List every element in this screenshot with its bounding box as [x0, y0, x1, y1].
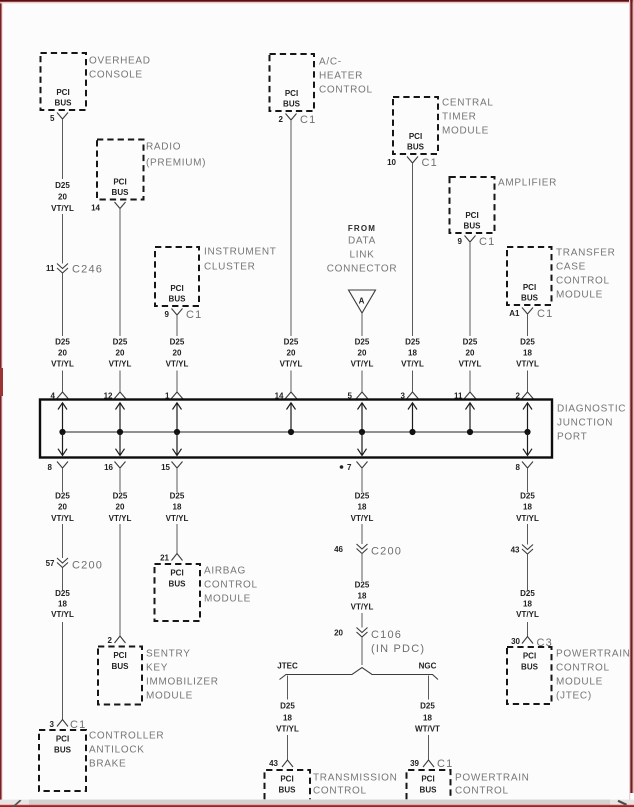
svg-text:46: 46	[334, 545, 343, 554]
bottom gray status strip	[0, 800, 634, 805]
pin 2 connector above sentry key immobilizer module	[108, 636, 126, 645]
svg-text:VT/YL: VT/YL	[351, 603, 374, 612]
split brace from C106 to JTEC and NGC branches	[280, 668, 439, 680]
svg-text:18: 18	[58, 600, 67, 609]
wire col2 to sentry key immobilizer module	[119, 524, 121, 636]
wire col8 label to port pin	[527, 371, 529, 393]
svg-text:MODULE: MODULE	[556, 677, 603, 688]
svg-text:20: 20	[58, 349, 67, 358]
label: SENTRY KEY IMMOBILIZER MODULE	[146, 649, 219, 702]
svg-text:VT/YL: VT/YL	[51, 360, 74, 369]
label: TRANSFER CASE CONTROL MODULE	[556, 248, 616, 301]
svg-text:VT/YL: VT/YL	[109, 360, 132, 369]
svg-text:CONNECTOR: CONNECTOR	[327, 264, 398, 275]
off-page triangle connector A (data link connector)	[349, 290, 376, 313]
svg-text:D25: D25	[520, 338, 535, 347]
svg-text:CENTRAL: CENTRAL	[442, 98, 494, 109]
port top pin 1 chevron col3	[165, 392, 183, 401]
wire col5 below port	[361, 468, 363, 492]
svg-text:C246: C246	[72, 264, 103, 276]
svg-text:18: 18	[173, 503, 182, 512]
page border top maroon	[0, 0, 634, 1]
wire label D25 18 VT/YL above port col6	[401, 338, 424, 369]
wire col3 instrument cluster to port	[176, 315, 178, 336]
label: RADIO (PREMIUM)	[146, 142, 206, 169]
wire col1 to controller antilock brake	[62, 622, 64, 720]
wire col2 label to port pin	[119, 371, 121, 393]
svg-text:KEY: KEY	[146, 663, 168, 674]
module box: POWERTRAIN CONTROL (PCI BUS, cut at bottom)	[407, 770, 451, 799]
svg-text:PCI: PCI	[170, 284, 183, 293]
port internal up-arrow col2	[116, 403, 125, 432]
svg-text:C106: C106	[371, 629, 402, 641]
cursor mark bottom right	[618, 801, 627, 805]
port top pin 14 chevron col4	[275, 392, 297, 401]
svg-text:CASE: CASE	[556, 262, 586, 273]
svg-text:20: 20	[173, 349, 182, 358]
svg-text:BUS: BUS	[521, 294, 539, 303]
wire col5 to C200	[361, 524, 363, 544]
svg-text:PCI: PCI	[421, 775, 434, 784]
svg-text:JTEC: JTEC	[277, 662, 298, 671]
wire col1 to C200	[62, 524, 64, 558]
svg-text:TRANSFER: TRANSFER	[556, 248, 616, 259]
port top pin 11 chevron col7	[454, 392, 476, 401]
port internal up-arrow col7	[466, 403, 475, 432]
svg-text:C1: C1	[479, 236, 495, 248]
svg-text:(JTEC): (JTEC)	[556, 691, 592, 702]
svg-text:MODULE: MODULE	[146, 691, 193, 702]
label: AMPLIFIER	[498, 178, 557, 189]
wire label D25 20 VT/YL above port col2	[109, 338, 132, 369]
svg-text:BUS: BUS	[464, 222, 482, 231]
wire label D25 20 VT/YL above port col7	[459, 338, 482, 369]
wire col3 to airbag control module	[176, 524, 178, 553]
svg-text:POWERTRAIN: POWERTRAIN	[556, 649, 631, 660]
wire label below port col3	[166, 492, 189, 524]
pin 30 connector C3 above powertrain control module (JTEC)	[511, 637, 553, 650]
svg-text:D25: D25	[463, 338, 478, 347]
module box: TRANSMISSION CONTROL (PCI BUS, cut at bottom)	[265, 770, 311, 799]
svg-text:8: 8	[516, 463, 521, 472]
pin 9 connector C1 below amplifier	[458, 236, 496, 249]
port top pin 4 chevron col1	[51, 392, 69, 401]
svg-text:BUS: BUS	[112, 188, 130, 197]
svg-text:10: 10	[387, 158, 396, 167]
port bus junction dot col3	[174, 429, 180, 435]
port internal down-arrow col3	[173, 432, 182, 455]
wire col1 label to port pin	[62, 371, 64, 393]
pin 39 connector C1 above powertrain control	[410, 758, 453, 770]
svg-text:A/C-: A/C-	[319, 57, 342, 68]
module box: AMPLIFIER (PCI BUS)	[450, 177, 495, 233]
wire col8 TCCM to port	[527, 314, 529, 336]
svg-text:20: 20	[334, 629, 343, 638]
svg-text:CONTROL: CONTROL	[556, 276, 610, 287]
svg-text:PCI: PCI	[409, 132, 422, 141]
pin 43 connector above transmission control	[269, 759, 293, 768]
svg-text:VT/YL: VT/YL	[166, 514, 189, 523]
svg-text:VT/YL: VT/YL	[280, 360, 303, 369]
svg-text:21: 21	[160, 554, 169, 563]
label: CENTRAL TIMER MODULE	[442, 98, 494, 137]
svg-text:18: 18	[408, 349, 417, 358]
wire col4 A/C to port	[290, 120, 292, 336]
port internal up-arrow col1	[58, 403, 67, 432]
svg-text:D25: D25	[520, 589, 535, 598]
port internal down-arrow col5	[358, 432, 367, 455]
svg-text:LINK: LINK	[349, 250, 374, 261]
svg-text:PCI: PCI	[113, 651, 126, 660]
svg-text:IMMOBILIZER: IMMOBILIZER	[146, 677, 219, 688]
svg-text:D25: D25	[55, 181, 70, 190]
wire label D25 18 WT/VT NGC branch	[415, 702, 440, 734]
wire JTEC branch to transmission control	[287, 735, 289, 760]
svg-text:VT/YL: VT/YL	[51, 204, 74, 213]
svg-text:VT/YL: VT/YL	[276, 725, 299, 734]
svg-text:AIRBAG: AIRBAG	[204, 566, 246, 577]
svg-text:BUS: BUS	[169, 295, 187, 304]
pin A1 connector C1 below transfer case control module	[509, 308, 553, 321]
port internal bus line	[63, 431, 528, 433]
svg-text:D25: D25	[55, 338, 70, 347]
svg-text:MODULE: MODULE	[204, 594, 251, 605]
wire col1 below port	[62, 468, 64, 492]
wire col8 to powertrain control module JTEC	[527, 622, 529, 637]
port bottom pin 15 fork col3	[161, 462, 182, 473]
wire label D25 18 VT/YL above port col8	[516, 338, 539, 369]
svg-text:D25: D25	[355, 492, 370, 501]
wire label D25 20 VT/YL above port col3	[166, 338, 189, 369]
svg-text:C200: C200	[72, 560, 103, 572]
svg-text:C1: C1	[437, 758, 453, 770]
wire label D25 18 VT/YL JTEC branch	[276, 702, 299, 734]
svg-text:C1: C1	[537, 308, 553, 320]
svg-text:D25: D25	[405, 338, 420, 347]
label: CONTROLLER ANTILOCK BRAKE	[89, 731, 164, 770]
wire col2 below port	[119, 468, 121, 492]
port top pin 3 chevron col6	[401, 392, 419, 401]
svg-text:VT/YL: VT/YL	[51, 610, 74, 619]
port bus junction dot col1	[59, 429, 65, 435]
in-line connector pin 43 col8	[511, 545, 533, 555]
svg-text:NGC: NGC	[419, 662, 437, 671]
module box: POWERTRAIN CONTROL MODULE JTEC (PCI BUS)	[507, 647, 552, 704]
module box: CENTRAL TIMER MODULE (PCI BUS)	[393, 97, 438, 154]
svg-text:A: A	[359, 297, 365, 306]
wire col2 radio to port	[119, 209, 121, 337]
svg-text:VT/YL: VT/YL	[51, 514, 74, 523]
svg-text:30: 30	[511, 637, 520, 646]
wire col8 below port	[527, 468, 529, 492]
svg-text:VT/YL: VT/YL	[401, 360, 424, 369]
port top pin 12 chevron col2	[104, 392, 126, 401]
svg-text:7: 7	[347, 463, 352, 472]
page border left maroon	[0, 0, 2, 807]
svg-text:VT/YL: VT/YL	[516, 514, 539, 523]
in-line connector C246 pin 11	[46, 264, 103, 276]
wire col1 below C200	[62, 568, 64, 590]
svg-text:3: 3	[50, 720, 55, 729]
wire label D25 20 VT/YL above port col5	[351, 338, 374, 369]
wire col8 to connector 43	[527, 524, 529, 545]
svg-text:D25: D25	[420, 702, 435, 711]
diagnostic junction port box	[40, 400, 552, 458]
svg-text:11: 11	[46, 264, 55, 273]
port internal down-arrow col1	[58, 432, 67, 455]
svg-text:18: 18	[523, 349, 532, 358]
svg-text:CONTROL: CONTROL	[556, 663, 610, 674]
port bus junction dot col5	[359, 429, 365, 435]
svg-text:18: 18	[523, 600, 532, 609]
port internal up-arrow col4	[287, 403, 296, 432]
port internal down-arrow col8	[523, 432, 532, 455]
svg-text:PCI: PCI	[113, 178, 126, 187]
svg-text:MODULE: MODULE	[556, 290, 603, 301]
wire col3 label to port pin	[176, 371, 178, 393]
svg-text:20: 20	[287, 349, 296, 358]
port internal up-arrow col3	[173, 403, 182, 432]
svg-text:BUS: BUS	[169, 580, 187, 589]
svg-text:CONTROL: CONTROL	[319, 85, 373, 96]
in-line connector C200 pin 46	[334, 544, 402, 558]
svg-text:5: 5	[50, 114, 55, 123]
svg-text:BUS: BUS	[55, 99, 73, 108]
svg-text:57: 57	[46, 559, 55, 568]
svg-text:CONTROL: CONTROL	[204, 580, 258, 591]
wire label D25 20 VT/YL above port col1	[51, 338, 74, 369]
svg-text:PCI: PCI	[56, 88, 69, 97]
wire col1 below C246	[62, 274, 64, 337]
svg-text:20: 20	[466, 349, 475, 358]
wire label below port col1	[51, 492, 74, 524]
wire col3 below port	[176, 468, 178, 492]
wire label below port col2	[109, 492, 132, 524]
svg-text:16: 16	[104, 463, 113, 472]
port bus junction dot col6	[409, 429, 415, 435]
port internal up-arrow col5	[358, 403, 367, 432]
svg-text:PORT: PORT	[557, 432, 587, 443]
wire col5 label to port pin	[361, 371, 363, 393]
page border right maroon	[629, 0, 630, 807]
module box: INSTRUMENT CLUSTER (PCI BUS)	[155, 247, 199, 306]
svg-text:POWERTRAIN: POWERTRAIN	[455, 773, 530, 784]
left border scroll mark	[0, 368, 3, 396]
svg-text:2: 2	[108, 636, 113, 645]
svg-text:VT/YL: VT/YL	[351, 360, 374, 369]
module box: SENTRY KEY IMMOBILIZER MODULE (PCI BUS)	[98, 647, 142, 705]
svg-text:VT/YL: VT/YL	[516, 360, 539, 369]
in-line connector C200 pin 57	[46, 558, 104, 572]
svg-text:DIAGNOSTIC: DIAGNOSTIC	[557, 404, 626, 415]
svg-text:D25: D25	[113, 338, 128, 347]
svg-text:VT/YL: VT/YL	[351, 514, 374, 523]
svg-text:18: 18	[523, 503, 532, 512]
pin 3 connector C1 above controller antilock brake	[50, 719, 87, 731]
port bus junction dot col4	[288, 429, 294, 435]
svg-text:9: 9	[165, 310, 170, 319]
label: POWERTRAIN CONTROL MODULE (JTEC)	[556, 649, 631, 702]
svg-text:SENTRY: SENTRY	[146, 649, 191, 660]
svg-text:BUS: BUS	[420, 786, 438, 795]
svg-text:C200: C200	[371, 546, 402, 558]
wire col8 below connector 43	[527, 555, 529, 591]
svg-text:18: 18	[358, 592, 367, 601]
svg-text:(PREMIUM): (PREMIUM)	[146, 158, 206, 169]
port internal up-arrow col6	[408, 403, 417, 432]
svg-text:CONSOLE: CONSOLE	[89, 70, 143, 81]
port bottom pin 8 fork col1	[48, 462, 68, 473]
svg-text:TRANSMISSION: TRANSMISSION	[313, 773, 398, 784]
port bottom pin 16 fork col2	[104, 462, 125, 473]
wire col1 from overhead console	[62, 119, 64, 179]
svg-text:HEATER: HEATER	[319, 71, 363, 82]
label: POWERTRAIN CONTROL	[455, 773, 530, 797]
svg-text:D25: D25	[55, 589, 70, 598]
wire label below port col5	[351, 492, 374, 524]
svg-text:CONTROLLER: CONTROLLER	[89, 731, 164, 742]
svg-text:8: 8	[48, 463, 53, 472]
wire label D25 18 VT/YL col8 lower	[516, 589, 539, 619]
svg-text:PCI: PCI	[523, 652, 536, 661]
svg-text:C1: C1	[422, 157, 438, 169]
svg-text:PCI: PCI	[280, 775, 293, 784]
port bus junction dot col2	[117, 429, 123, 435]
svg-text:20: 20	[116, 349, 125, 358]
pin 5 connector fork below overhead console	[50, 113, 68, 124]
svg-text:BUS: BUS	[54, 746, 72, 755]
wire col7 label to port pin	[469, 371, 471, 393]
port top pin 2 chevron col8	[516, 392, 534, 401]
wire col5 below C200	[361, 554, 363, 581]
svg-text:43: 43	[511, 546, 520, 555]
wire col6 label to port pin	[412, 371, 414, 393]
label: TRANSMISSION CONTROL	[313, 773, 398, 797]
svg-text:CONTROL: CONTROL	[455, 786, 509, 797]
wire label D25 18 VT/YL col1 lower	[51, 589, 74, 619]
svg-text:D25: D25	[355, 581, 370, 590]
svg-text:PCI: PCI	[465, 211, 478, 220]
pin 2 connector C1 below A/C-heater control	[279, 114, 317, 127]
svg-text:20: 20	[358, 349, 367, 358]
label: INSTRUMENT CLUSTER	[204, 247, 277, 273]
svg-text:BUS: BUS	[407, 143, 425, 152]
svg-text:18: 18	[358, 503, 367, 512]
label: FROM DATA LINK CONNECTOR	[327, 224, 398, 275]
svg-text:39: 39	[410, 759, 419, 768]
label: A/C-HEATER CONTROL	[319, 57, 373, 96]
wire col6 CTM to port	[412, 163, 414, 336]
svg-text:WT/VT: WT/VT	[415, 725, 440, 734]
svg-text:D25: D25	[113, 492, 128, 501]
svg-text:PCI: PCI	[285, 89, 298, 98]
wire col1 to C246	[62, 214, 64, 264]
label: OVERHEAD CONSOLE	[89, 56, 151, 81]
svg-text:BRAKE: BRAKE	[89, 759, 126, 770]
pin 9 connector C1 below instrument cluster	[165, 309, 203, 322]
svg-text:VT/YL: VT/YL	[109, 514, 132, 523]
svg-text:18: 18	[283, 714, 292, 723]
svg-text:TIMER: TIMER	[442, 112, 477, 123]
svg-text:ANTILOCK: ANTILOCK	[89, 745, 145, 756]
wire label D25 20 VT/YL col1 upper	[51, 181, 74, 213]
svg-text:D25: D25	[284, 338, 299, 347]
wire label below port col8	[516, 492, 539, 524]
svg-text:D25: D25	[55, 492, 70, 501]
svg-text:BUS: BUS	[521, 663, 539, 672]
port bus junction dot col7	[467, 429, 473, 435]
wire label D25 20 VT/YL above port col4	[280, 338, 303, 369]
module box: RADIO PREMIUM (PCI BUS)	[97, 140, 144, 200]
svg-text:RADIO: RADIO	[146, 142, 181, 153]
svg-text:20: 20	[58, 503, 67, 512]
svg-text:BUS: BUS	[112, 662, 130, 671]
wire col5 below C106	[361, 638, 363, 666]
wire col5 triangle to port	[361, 313, 363, 336]
cursor mark bottom left	[12, 800, 22, 807]
svg-text:PCI: PCI	[523, 283, 536, 292]
module box: TRANSFER CASE CONTROL MODULE (PCI BUS)	[507, 247, 552, 305]
svg-text:D25: D25	[170, 338, 185, 347]
svg-text:A1: A1	[509, 309, 520, 318]
svg-text:20: 20	[58, 193, 67, 202]
svg-text:C1: C1	[300, 114, 316, 126]
wire col5 to C106	[361, 613, 363, 628]
wire col7 amplifier to port	[469, 242, 471, 336]
module box: CONTROLLER ANTILOCK BRAKE (PCI BUS)	[39, 730, 86, 791]
svg-text:BUS: BUS	[279, 786, 297, 795]
svg-text:9: 9	[458, 237, 463, 246]
svg-text:20: 20	[116, 503, 125, 512]
svg-text:D25: D25	[355, 338, 370, 347]
svg-text:MODULE: MODULE	[442, 126, 489, 137]
port internal up-arrow col8	[523, 403, 532, 432]
module box: A/C-HEATER CONTROL (PCI BUS)	[270, 54, 315, 111]
svg-text:INSTRUMENT: INSTRUMENT	[204, 247, 277, 258]
port top pin 5 chevron col5	[348, 392, 368, 401]
svg-text:AMPLIFIER: AMPLIFIER	[498, 178, 557, 189]
svg-text:OVERHEAD: OVERHEAD	[89, 56, 151, 67]
module box: OVERHEAD CONSOLE (PCI BUS)	[41, 53, 87, 110]
svg-text:18: 18	[423, 714, 432, 723]
pin 10 connector C1 below central timer module	[387, 157, 438, 170]
bottom red rule	[0, 805, 634, 807]
svg-text:FROM: FROM	[348, 224, 376, 233]
label: AIRBAG CONTROL MODULE	[204, 566, 258, 605]
wire NGC branch to powertrain control	[428, 735, 430, 760]
svg-text:BUS: BUS	[283, 100, 301, 109]
label: DIAGNOSTIC JUNCTION PORT	[557, 404, 626, 443]
svg-text:D25: D25	[280, 702, 295, 711]
module box: AIRBAG CONTROL MODULE (PCI BUS)	[155, 564, 201, 621]
port bottom pin 7 fork col5	[340, 462, 368, 473]
port bottom pin 8 fork col8	[516, 462, 533, 473]
svg-text:15: 15	[161, 463, 170, 472]
svg-text:DATA: DATA	[348, 236, 376, 247]
svg-text:VT/YL: VT/YL	[516, 610, 539, 619]
wire NGC branch upper	[428, 676, 430, 700]
pin 14 connector fork below radio	[91, 202, 125, 213]
wire label D25 18 VT/YL col5 mid	[351, 581, 374, 612]
wire col4 label to port pin	[290, 371, 292, 393]
svg-text:PCI: PCI	[170, 569, 183, 578]
svg-text:VT/YL: VT/YL	[166, 360, 189, 369]
svg-text:CLUSTER: CLUSTER	[204, 262, 256, 273]
svg-text:14: 14	[91, 204, 100, 213]
svg-text:(IN PDC): (IN PDC)	[371, 643, 425, 655]
svg-text:JUNCTION: JUNCTION	[557, 418, 613, 429]
svg-text:CONTROL: CONTROL	[313, 786, 367, 797]
